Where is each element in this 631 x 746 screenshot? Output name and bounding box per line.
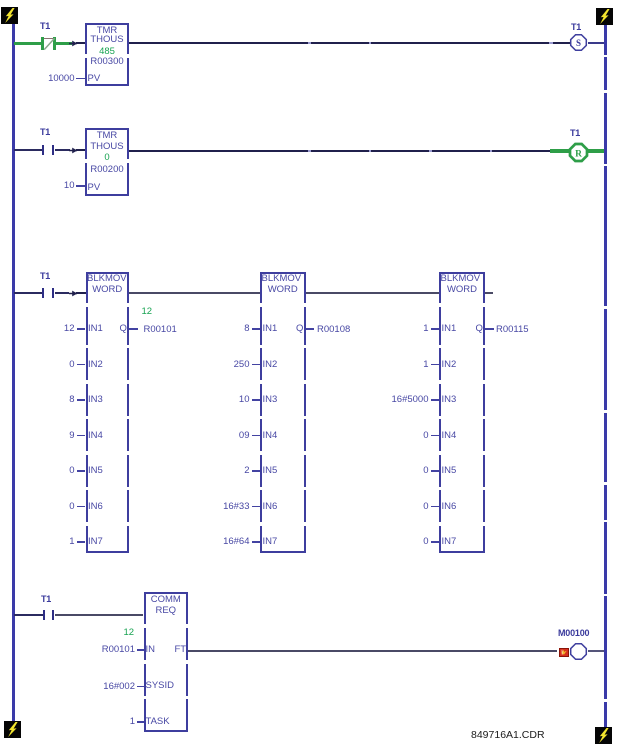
value 10 for PV bbox=[40, 181, 75, 191]
BLKMOV1 Q output tick and label bbox=[129, 328, 138, 330]
BLKMOV2 Q output tick and label bbox=[306, 328, 315, 330]
wire arrow to block bbox=[76, 42, 86, 44]
function block BLKMOV3 (BLKMOV WORD R00115) bbox=[439, 272, 485, 554]
register R00115 bbox=[496, 325, 529, 335]
label T1 (rung3 contact) bbox=[40, 271, 50, 281]
green current value 12 bbox=[142, 307, 153, 317]
wire BLKMOV2 to BLKMOV3 bbox=[306, 292, 440, 294]
BLKMOV3 input values bbox=[388, 324, 429, 334]
BLKMOV2 input values bbox=[215, 324, 250, 334]
contact T1 NC energized: left bar bbox=[41, 37, 44, 50]
left power rail bbox=[12, 24, 15, 721]
coil R (reset, energized) bbox=[568, 142, 589, 163]
tick PV input bbox=[76, 185, 85, 187]
green current value 12 bbox=[124, 628, 135, 638]
wire green R coil to rail bbox=[588, 149, 604, 153]
wire contact to arrow bbox=[55, 149, 70, 151]
function block TMR2 (TMR THOUS R00200) bbox=[85, 128, 129, 196]
function block BLKMOV2 (BLKMOV WORD R00108) bbox=[260, 272, 306, 554]
contact T1 NO: right bar bbox=[52, 288, 54, 299]
value 16#002 for SYSID bbox=[99, 682, 135, 692]
right power rail bbox=[604, 25, 607, 727]
coil S (set) bbox=[569, 33, 588, 52]
power icon top-right bbox=[596, 8, 613, 25]
wire green into R coil bbox=[550, 149, 569, 153]
label T1 (S coil) bbox=[571, 22, 581, 32]
wire TMR1 out to S coil bbox=[129, 42, 570, 44]
wire green rail to contact bbox=[14, 42, 41, 46]
right power rail gaps bbox=[603, 55, 607, 58]
wire BLKMOV1 to BLKMOV2 bbox=[129, 292, 260, 294]
contact T1 NO: right bar bbox=[52, 145, 54, 156]
label T1 (R coil) bbox=[570, 128, 580, 138]
arrow into TMR2 bbox=[69, 147, 78, 154]
contact T1 NO: left bar bbox=[42, 145, 44, 156]
arrow into TMR1 bbox=[69, 40, 78, 47]
wire green contact to arrow bbox=[56, 42, 72, 46]
footer document number bbox=[471, 729, 545, 741]
label T1 (rung2 contact) bbox=[40, 127, 50, 137]
label T1 (rung4 contact) bbox=[41, 594, 51, 604]
contact T1 NC energized: right bar bbox=[53, 37, 56, 50]
stub wire right of BLKMOV3 bbox=[485, 292, 493, 294]
wire FT out to M00100 coil bbox=[188, 650, 557, 651]
BLKMOV1 input values bbox=[40, 324, 75, 334]
coil M00100 bbox=[569, 642, 588, 661]
wire rail to contact bbox=[14, 149, 42, 151]
svg-text:S: S bbox=[576, 38, 581, 48]
wire ticks rung1 bbox=[308, 42, 311, 44]
contact T1 NO: left bar bbox=[42, 288, 44, 299]
BLKMOV3 Q output tick and label bbox=[485, 328, 494, 330]
wire rail to contact bbox=[14, 292, 42, 294]
wire contact to COMMREQ bbox=[55, 614, 144, 616]
svg-text:R: R bbox=[575, 149, 582, 159]
wire S coil to rail bbox=[588, 42, 604, 44]
power icon top-left bbox=[1, 7, 18, 24]
wire TMR2 out to R coil bbox=[129, 150, 550, 152]
wire ticks rung2 bbox=[308, 150, 311, 152]
wire rail to contact bbox=[14, 614, 43, 616]
function block COMMREQ bbox=[144, 592, 189, 732]
power icon bottom-right bbox=[595, 727, 612, 744]
contact NC slash bbox=[43, 37, 56, 51]
wire arrow to block bbox=[76, 149, 86, 151]
contact T1 NO: right bar bbox=[52, 610, 54, 621]
function block BLKMOV1 (BLKMOV WORD R00101) bbox=[86, 272, 130, 554]
register R00101 bbox=[144, 325, 177, 335]
value 10000 for PV bbox=[40, 74, 75, 84]
wire arrow to block bbox=[76, 292, 86, 294]
power icon bottom-left bbox=[4, 721, 21, 738]
contact T1 NO: left bar bbox=[43, 610, 45, 621]
wire coil to rail bbox=[588, 650, 604, 651]
wire contact to arrow bbox=[55, 292, 69, 294]
label M00100 bbox=[558, 628, 589, 638]
label T1 (rung1 contact) bbox=[40, 21, 50, 31]
tick PV input bbox=[76, 78, 85, 80]
arrow into BLKMOV1 bbox=[69, 290, 78, 297]
value R00101 for IN bbox=[99, 645, 135, 655]
value 1 for TASK bbox=[99, 717, 135, 727]
register R00108 bbox=[317, 325, 350, 335]
function block TMR1 (TMR THOUS R00300) bbox=[85, 23, 129, 86]
contact NC top bar bbox=[44, 38, 53, 40]
fault icon (red) bbox=[559, 648, 569, 658]
